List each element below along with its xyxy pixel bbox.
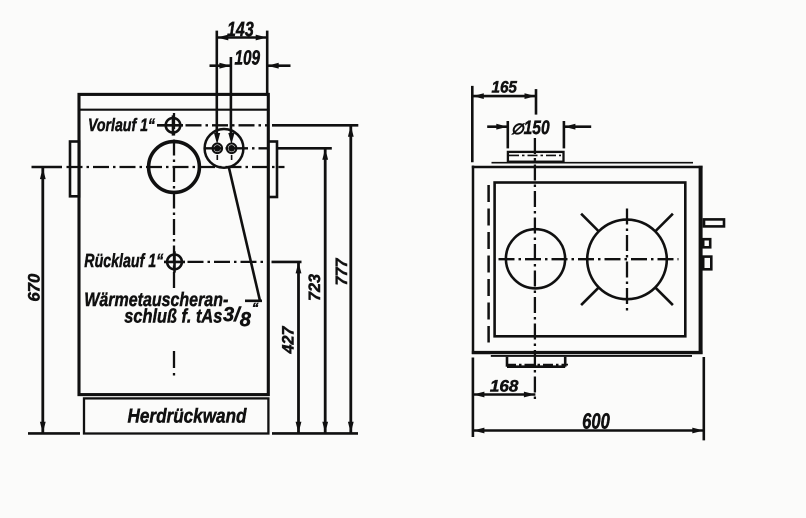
floor line right segment bbox=[272, 432, 358, 435]
dimension line d150 left tail bbox=[487, 125, 508, 128]
dimension 165 right extension bbox=[535, 89, 538, 115]
dimension 600 right extension bbox=[702, 357, 705, 440]
right port bbox=[227, 144, 237, 154]
stove top-view outer bottom edge bbox=[472, 351, 703, 354]
svg-text:670: 670 bbox=[26, 273, 44, 302]
burner ring diagonal lower-right bbox=[655, 287, 673, 305]
svg-text:723: 723 bbox=[306, 274, 324, 301]
dimension line 109 right tail bbox=[267, 64, 290, 67]
Ruecklauf cross vertical bbox=[173, 251, 176, 272]
dimension 109 extension line left bbox=[230, 57, 233, 137]
leader line to heat exchanger ports bbox=[229, 166, 261, 301]
collar hidden centerline bbox=[509, 154, 561, 156]
chimney vertical centerline bbox=[534, 138, 536, 403]
svg-text:600: 600 bbox=[582, 409, 610, 434]
leader tail tick bbox=[245, 299, 262, 302]
left port bbox=[213, 144, 223, 154]
hotplate large circle bbox=[587, 220, 667, 300]
burner ring diagonal upper-right bbox=[655, 214, 673, 232]
horizontal centerline through firebox circle bbox=[32, 166, 63, 168]
dimension line 143 bbox=[217, 36, 267, 39]
dimension line 168 bbox=[473, 393, 536, 396]
stove top-view outer top edge bbox=[472, 166, 703, 169]
svg-text:109: 109 bbox=[235, 47, 261, 70]
svg-text:schluß f. tAs: schluß f. tAs bbox=[124, 305, 222, 327]
hotplates horizontal centerline bbox=[499, 258, 679, 260]
svg-text:168: 168 bbox=[490, 378, 519, 396]
svg-text:Herdrückwand: Herdrückwand bbox=[128, 405, 248, 427]
side hinge upper bbox=[703, 239, 710, 247]
left wall flange bbox=[70, 142, 79, 197]
svg-text:777: 777 bbox=[333, 258, 351, 286]
door handle bbox=[704, 219, 724, 226]
large hotplate vertical centerline bbox=[626, 209, 628, 314]
bottom flue tab right edge bbox=[564, 357, 567, 367]
dimension 777 line bbox=[349, 125, 352, 433]
svg-text:Vorlauf 1“: Vorlauf 1“ bbox=[88, 115, 155, 135]
Vorlauf cross horizontal bbox=[157, 124, 183, 127]
hidden edge dashed line bbox=[487, 185, 490, 343]
dimension 150 right extension bbox=[563, 121, 566, 148]
Vorlauf cross vertical bbox=[172, 115, 175, 135]
arrowhead down to left port bbox=[214, 133, 220, 144]
burner ring diagonal upper-left bbox=[581, 214, 599, 232]
arrowhead down to right port bbox=[228, 133, 234, 144]
hotplate small circle bbox=[506, 229, 565, 288]
dimension 168 left extension bbox=[472, 358, 475, 438]
top band line bbox=[78, 109, 270, 111]
twin-port centerline bbox=[206, 147, 268, 149]
chimney collar bbox=[508, 152, 564, 162]
Ruecklauf centerline extension to 427 dimension bbox=[188, 261, 269, 263]
floor line left segment bbox=[28, 432, 80, 435]
bottom flue tab centerline bbox=[506, 364, 568, 366]
dimension 427 line bbox=[297, 262, 300, 433]
top plate lower edge line bbox=[491, 355, 692, 357]
stove top-view outer right edge bbox=[699, 166, 703, 354]
Herdrueckwand base box bbox=[84, 398, 268, 433]
svg-text:427: 427 bbox=[280, 326, 298, 355]
top plate upper edge line bbox=[492, 162, 694, 164]
vertical centerline of body bbox=[173, 113, 175, 289]
inner plate rectangle bbox=[495, 183, 686, 337]
heat exchanger twin-port circle bbox=[205, 129, 244, 168]
dimension line d150 right tail bbox=[564, 125, 591, 128]
burner ring diagonal lower-left bbox=[581, 287, 599, 305]
dimension 670 line bbox=[41, 168, 44, 434]
dimension 723 line bbox=[324, 148, 327, 433]
firebox large circle bbox=[149, 142, 200, 193]
svg-text:Rücklauf 1“: Rücklauf 1“ bbox=[84, 251, 163, 272]
port tick marks bbox=[216, 155, 218, 160]
stove top-view outer left edge bbox=[472, 166, 475, 355]
bottom flue tab left edge bbox=[506, 357, 509, 367]
Ruecklauf cross horizontal bbox=[164, 261, 185, 264]
stove body outline bbox=[79, 94, 268, 394]
dimension 143 extension line left bbox=[216, 31, 219, 137]
svg-text:165: 165 bbox=[491, 79, 517, 97]
svg-text:∅150: ∅150 bbox=[511, 117, 550, 139]
svg-text:143: 143 bbox=[227, 18, 254, 41]
Vorlauf centerline extension to 777 dimension bbox=[186, 124, 269, 126]
side hinge lower bbox=[703, 257, 711, 270]
dimension line 109 left tail bbox=[210, 64, 231, 67]
right wall flange bbox=[268, 142, 277, 198]
bottom flue tab bottom edge bbox=[507, 365, 565, 368]
Ruecklauf connection circle bbox=[167, 255, 182, 270]
dimension 150 left extension bbox=[506, 121, 509, 148]
dimension line 165 bbox=[472, 95, 536, 98]
dimension 165 left extension bbox=[471, 86, 474, 162]
svg-text:3/8“: 3/8“ bbox=[223, 300, 259, 331]
shared right extension line bbox=[266, 31, 269, 94]
Vorlauf connection circle bbox=[166, 118, 181, 133]
dimension line 600 bbox=[473, 429, 704, 432]
